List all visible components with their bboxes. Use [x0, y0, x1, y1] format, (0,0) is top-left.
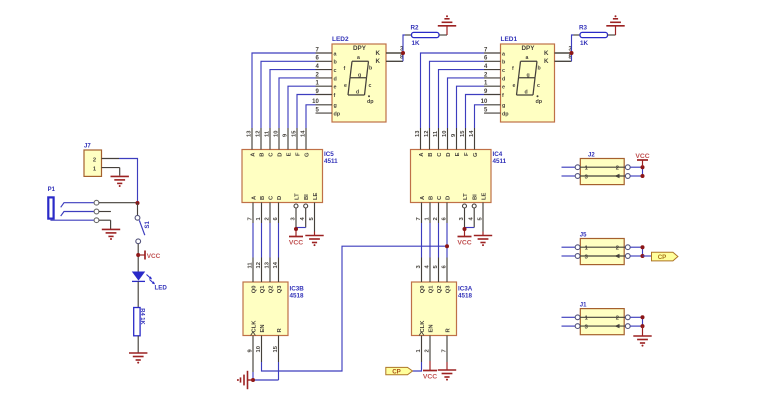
svg-text:dp: dp: [367, 99, 374, 105]
svg-text:c: c: [537, 83, 540, 89]
J1 pin row 2: [562, 324, 643, 331]
svg-text:Q3: Q3: [277, 285, 283, 294]
IC3B top pin 14 stub: [273, 258, 279, 283]
IC4 pin 3 (LT) stub: [459, 204, 467, 228]
display LED1 pin 4 stub: [484, 64, 501, 70]
svg-text:BI: BI: [304, 194, 310, 200]
svg-text:R3: R3: [579, 25, 588, 32]
IC3A top pin 4 stub: [425, 258, 431, 283]
wire display LED2 pin g to decoder: [306, 105, 316, 128]
connector J2: [580, 152, 624, 184]
svg-text:LE: LE: [313, 192, 319, 200]
svg-text:K: K: [544, 58, 549, 65]
svg-text:VCC: VCC: [423, 374, 437, 381]
svg-text:14: 14: [301, 130, 307, 137]
wire P1 ring stub: [99, 211, 111, 213]
ground (P1 sleeve): [102, 229, 120, 240]
wire IC4 input to IC3A Q1: [429, 223, 431, 258]
svg-text:EN: EN: [260, 324, 266, 332]
wire R4 to ground: [137, 336, 139, 353]
display LED2 pin 2 stub: [315, 72, 332, 78]
svg-text:15: 15: [273, 345, 279, 352]
wire IC4 LE to ground: [482, 232, 484, 236]
ground (J7 pin1): [111, 176, 129, 187]
7-segment display LED1: [501, 36, 555, 122]
display LED2 pin 9 stub: [315, 89, 332, 95]
svg-text:a: a: [357, 55, 360, 61]
svg-text:d: d: [334, 76, 337, 82]
svg-text:11: 11: [265, 130, 271, 137]
display LED1 pin 6 stub: [484, 56, 501, 62]
wire IC3A R to ground: [446, 356, 448, 370]
wire display LED1 pin c to decoder: [439, 70, 485, 128]
svg-text:10: 10: [274, 131, 280, 137]
IC4 top pin 15 stub: [460, 128, 466, 150]
display LED1 pin 9 stub: [484, 89, 501, 95]
svg-text:CP: CP: [658, 254, 667, 261]
power VCC (IC4 LT/BI): [457, 237, 471, 247]
junction node A: [136, 201, 140, 205]
J2 pin row 2: [562, 174, 643, 181]
audio jack P1: [48, 187, 95, 220]
display LED2 pin 5 stub: [315, 108, 332, 114]
svg-text:EN: EN: [429, 324, 435, 332]
wire P1 tip to node A: [99, 202, 138, 204]
power VCC tap: [136, 251, 160, 260]
IC3B top pin 12 stub: [256, 258, 262, 283]
svg-text:12: 12: [256, 131, 262, 137]
wire LED to R4: [137, 281, 139, 307]
svg-text:g: g: [358, 73, 361, 79]
svg-text:14: 14: [273, 261, 279, 268]
IC5 bottom pin 7 stub: [248, 203, 254, 224]
IC3A bottom pin 1 stub: [416, 336, 422, 356]
svg-text:e: e: [344, 83, 347, 89]
svg-text:15: 15: [460, 130, 466, 137]
IC5 top pin 13 stub: [247, 128, 253, 150]
IC4 bottom pin 6 stub: [442, 203, 448, 224]
wire display LED2 pin a to decoder: [252, 53, 316, 128]
svg-text:2: 2: [616, 166, 619, 172]
LED D1: [132, 272, 168, 292]
display LED2 pin 8 (K) stub: [386, 55, 404, 62]
svg-text:P1: P1: [48, 187, 56, 193]
svg-text:E: E: [287, 152, 293, 156]
svg-text:D: D: [277, 196, 283, 200]
connector J5: [580, 232, 624, 264]
wire J1 to ground: [642, 326, 644, 336]
ground (R2): [438, 15, 456, 26]
svg-text:LED1: LED1: [501, 36, 518, 43]
connector J7: [84, 144, 102, 177]
svg-text:K: K: [544, 50, 549, 57]
IC5 pin 3 (LT) stub: [291, 204, 299, 228]
svg-text:J7: J7: [84, 144, 91, 150]
P1 tip pin circle: [94, 200, 99, 205]
7-segment display LED2: [332, 36, 386, 122]
IC3A top pin 3 stub: [416, 258, 422, 283]
wire J2 to VCC: [642, 160, 644, 167]
power VCC (J2): [635, 153, 649, 160]
J2 right rail junctions: [641, 165, 645, 178]
P1 sleeve pin circle: [94, 218, 99, 223]
svg-text:e: e: [513, 83, 516, 89]
svg-text:G: G: [473, 152, 479, 157]
display LED2 pin 7 stub: [315, 47, 332, 53]
svg-text:dp: dp: [502, 112, 509, 118]
display LED2 pin 1 stub: [315, 81, 332, 87]
svg-text:CP: CP: [392, 369, 401, 376]
connector J1: [580, 303, 624, 335]
svg-text:IC3A: IC3A: [458, 286, 473, 293]
svg-text:11: 11: [248, 262, 254, 269]
net flag CP (bottom): [386, 367, 413, 375]
svg-text:J1: J1: [580, 303, 587, 309]
wire IC3A CLK to CP flag: [413, 356, 422, 372]
IC4 pin 4 (BI) stub: [469, 204, 477, 228]
svg-text:12: 12: [424, 131, 430, 137]
IC4 top pin 10 stub: [442, 128, 448, 150]
svg-text:f: f: [344, 66, 346, 72]
svg-text:g: g: [334, 103, 337, 109]
wire S1 to LED: [137, 244, 139, 272]
svg-text:CLK: CLK: [420, 320, 426, 333]
svg-text:c: c: [369, 83, 372, 89]
IC5 top pin 12 stub: [256, 128, 262, 150]
wire IC4 input to IC3A Q2: [438, 223, 440, 258]
IC4 pin 5 (LE) stub: [478, 203, 484, 232]
display LED2 pin 4 stub: [315, 64, 332, 70]
wire display LED2 pin f to decoder: [297, 95, 316, 129]
IC3A bottom pin 7 stub: [442, 336, 448, 356]
ground (IC3B CLK,R): [237, 371, 248, 389]
svg-text:11: 11: [433, 130, 439, 137]
svg-text:7: 7: [416, 217, 422, 220]
svg-text:2: 2: [433, 217, 439, 220]
net flag CP (J5): [652, 252, 678, 261]
svg-text:LT: LT: [295, 193, 301, 200]
svg-text:7: 7: [442, 349, 448, 352]
IC4 top pin 14 stub: [469, 128, 475, 150]
wire display LED2 pin e to decoder: [288, 86, 316, 128]
ground (IC4 LE): [474, 236, 492, 247]
wire LED2 K pins to resistor: [386, 35, 405, 61]
wire R2 to ground: [446, 26, 448, 35]
svg-text:c: c: [334, 68, 337, 74]
svg-text:c: c: [502, 68, 505, 74]
decoder IC4 4511: [411, 150, 507, 203]
ground (R4): [129, 353, 147, 364]
svg-text:VCC: VCC: [289, 240, 303, 247]
svg-text:E: E: [455, 152, 461, 156]
wire J7 pin1 to ground: [102, 168, 120, 176]
svg-text:d: d: [356, 90, 359, 96]
power VCC (IC3A EN): [423, 371, 437, 381]
svg-text:2: 2: [425, 349, 431, 352]
IC5 pin 4 (BI) stub: [300, 204, 308, 228]
wire display LED2 pin b to decoder: [261, 61, 316, 128]
wire IC5 LT/BI to VCC: [294, 227, 306, 236]
J1 right rail junctions: [641, 315, 645, 328]
svg-text:B: B: [428, 153, 434, 157]
svg-text:1K: 1K: [580, 40, 589, 47]
display LED2 pin 3 (K) stub: [386, 46, 404, 53]
wire IC4 input to IC3A Q3: [446, 223, 448, 258]
IC4 top pin 11 stub: [433, 128, 439, 150]
resistor R2: [405, 25, 447, 48]
display LED2 pin 6 stub: [315, 56, 332, 62]
svg-text:J5: J5: [580, 232, 587, 238]
svg-text:1K: 1K: [412, 40, 421, 47]
svg-text:K: K: [376, 58, 381, 65]
svg-text:DPY: DPY: [353, 45, 367, 52]
wire IC5 input to IC3B Q2: [269, 223, 271, 258]
svg-text:d: d: [525, 90, 528, 96]
svg-text:2: 2: [265, 217, 271, 220]
svg-text:K: K: [376, 50, 381, 57]
svg-text:13: 13: [247, 130, 253, 137]
IC3A top pin 6 stub: [442, 258, 448, 283]
svg-text:BI: BI: [473, 194, 479, 200]
svg-text:IC3B: IC3B: [290, 286, 305, 293]
counter IC3B 4518: [243, 282, 304, 336]
svg-text:d: d: [502, 76, 505, 82]
svg-text:13: 13: [415, 130, 421, 137]
IC5 top pin 9 stub: [283, 128, 289, 150]
wire display LED1 pin d to decoder: [448, 78, 485, 128]
wire IC4 LT/BI to VCC: [463, 227, 475, 236]
junction node B (IC3B clk/gnd): [248, 378, 256, 382]
IC3B top pin 13 stub: [265, 258, 271, 283]
wire IC5 input to IC3B Q1: [261, 223, 263, 258]
display LED1 pin 5 stub: [484, 108, 501, 114]
IC5 bottom pin 1 stub: [256, 203, 262, 224]
svg-text:J2: J2: [588, 152, 595, 158]
svg-text:DPY: DPY: [522, 45, 536, 52]
ground (IC5 LE): [305, 236, 323, 247]
switch S1: [135, 203, 151, 244]
IC4 top pin 13 stub: [415, 128, 421, 150]
svg-text:f: f: [512, 66, 514, 72]
svg-text:b: b: [538, 66, 541, 72]
ground (J1): [633, 336, 651, 347]
svg-text:f: f: [502, 93, 504, 99]
svg-text:4518: 4518: [458, 293, 473, 300]
J5 pin row 1: [562, 245, 643, 252]
J5 right rail junctions: [641, 245, 645, 258]
svg-text:Q2: Q2: [437, 286, 443, 294]
svg-text:4511: 4511: [493, 158, 507, 165]
IC4 bottom pin 7 stub: [416, 203, 422, 224]
wire carry IC3A Q3 to IC3B EN: [262, 244, 450, 371]
wire display LED1 pin f to decoder: [466, 95, 485, 129]
IC3B top pin 11 stub: [248, 258, 254, 283]
svg-text:2: 2: [93, 157, 96, 163]
svg-text:f: f: [334, 93, 336, 99]
IC5 top pin 15 stub: [292, 128, 298, 150]
IC4 bottom pin 1 stub: [425, 203, 431, 224]
svg-text:2: 2: [616, 246, 619, 252]
svg-text:13: 13: [265, 261, 271, 268]
wire IC5 input to IC3B Q3: [278, 223, 280, 258]
ground (IC3A R): [438, 370, 456, 381]
counter IC3A 4518: [412, 282, 473, 336]
svg-text:b: b: [369, 66, 372, 72]
IC3B bottom pin 10 stub: [256, 336, 262, 356]
svg-text:1K: 1K: [139, 317, 145, 325]
J5 pin row 2: [562, 254, 643, 261]
wire J7 pin2 to node A: [102, 159, 138, 204]
svg-text:12: 12: [256, 262, 262, 268]
svg-text:D: D: [278, 153, 284, 157]
wire display LED1 pin b to decoder: [430, 61, 485, 128]
display LED1 pin 3 (K) stub: [555, 46, 573, 53]
svg-text:LE: LE: [482, 192, 488, 200]
power VCC (IC5 LT/BI): [289, 237, 303, 247]
display LED1 pin 8 (K) stub: [555, 55, 573, 62]
IC4 top pin 12 stub: [424, 128, 430, 150]
ground (R3): [606, 15, 624, 26]
resistor R4: [134, 308, 146, 336]
svg-text:D: D: [446, 153, 452, 157]
svg-text:4511: 4511: [324, 158, 338, 165]
svg-text:Q1: Q1: [260, 285, 266, 294]
svg-text:a: a: [526, 55, 529, 61]
svg-text:14: 14: [469, 130, 475, 137]
IC3B bottom pin 15 stub: [273, 336, 279, 356]
svg-text:LT: LT: [463, 193, 469, 200]
svg-text:R4: R4: [139, 308, 145, 316]
IC5 pin 5 (LE) stub: [309, 203, 315, 232]
wire J5 to CP flag: [643, 255, 652, 257]
svg-text:CLK: CLK: [252, 320, 258, 333]
resistor R3: [574, 25, 616, 48]
IC5 bottom pin 6 stub: [273, 203, 279, 224]
svg-text:Q0: Q0: [252, 286, 258, 294]
svg-text:2: 2: [616, 316, 619, 322]
IC3B bottom pin 9 stub: [248, 336, 254, 356]
IC4 top pin 9 stub: [451, 128, 457, 150]
svg-text:VCC: VCC: [147, 253, 161, 260]
svg-text:g: g: [502, 103, 505, 109]
svg-text:B: B: [429, 196, 435, 200]
svg-text:e: e: [502, 85, 505, 91]
display LED1 pin 7 stub: [484, 47, 501, 53]
wire display LED1 pin e to decoder: [457, 86, 485, 128]
svg-text:10: 10: [442, 131, 448, 137]
J1 pin row 1: [562, 315, 643, 322]
IC5 top pin 10 stub: [274, 128, 280, 150]
svg-text:F: F: [296, 152, 302, 156]
wire display LED2 pin c to decoder: [270, 70, 316, 128]
svg-text:D: D: [446, 196, 452, 200]
wire display LED1 pin g to decoder: [475, 105, 485, 128]
display LED1 pin 2 stub: [484, 72, 501, 78]
wire display LED1 pin a to decoder: [421, 53, 485, 128]
svg-text:R2: R2: [411, 25, 420, 32]
svg-text:VCC: VCC: [457, 240, 471, 247]
wire R3 to ground: [615, 26, 617, 35]
svg-text:VCC: VCC: [635, 153, 649, 160]
svg-text:Q2: Q2: [269, 286, 275, 294]
svg-text:Q0: Q0: [420, 286, 426, 294]
wire IC3B CLK to ground node: [252, 356, 254, 381]
svg-text:LED2: LED2: [332, 36, 349, 43]
display LED1 pin 10 stub: [481, 99, 501, 105]
J2 pin row 1: [562, 165, 643, 172]
svg-text:B: B: [260, 196, 266, 200]
svg-text:LED: LED: [155, 285, 168, 292]
svg-text:10: 10: [256, 346, 262, 352]
svg-text:dp: dp: [334, 112, 341, 118]
svg-text:B: B: [260, 153, 266, 157]
P1 ring pin circle: [94, 209, 99, 214]
wire IC3B R to ground node: [253, 356, 279, 381]
wire P1 sleeve to ground: [99, 220, 111, 229]
wire display LED2 pin d to decoder: [279, 78, 316, 128]
svg-text:7: 7: [248, 217, 254, 220]
display LED1 pin 1 stub: [484, 81, 501, 87]
svg-text:F: F: [464, 152, 470, 156]
wire IC5 LE to ground: [314, 232, 316, 236]
svg-text:e: e: [334, 85, 337, 91]
IC3A top pin 5 stub: [433, 258, 439, 283]
wire IC5 input to IC3B Q0: [252, 223, 254, 258]
svg-text:S1: S1: [145, 220, 151, 228]
svg-text:dp: dp: [536, 99, 543, 105]
IC3A bottom pin 2 stub: [425, 336, 431, 356]
IC5 top pin 11 stub: [265, 128, 271, 150]
svg-text:g: g: [527, 73, 530, 79]
svg-text:15: 15: [292, 130, 298, 137]
IC4 bottom pin 2 stub: [433, 203, 439, 224]
svg-text:G: G: [305, 152, 311, 157]
IC5 bottom pin 2 stub: [265, 203, 271, 224]
svg-text:Q1: Q1: [429, 285, 435, 294]
display LED2 pin 10 stub: [312, 99, 332, 105]
svg-text:4518: 4518: [290, 293, 305, 300]
IC5 top pin 14 stub: [301, 128, 307, 150]
wire LED1 K pins to resistor: [555, 35, 574, 61]
wire IC4 input to IC3A Q0: [421, 223, 423, 258]
wire IC3A EN to VCC: [429, 356, 431, 371]
decoder IC5 4511: [242, 150, 338, 203]
svg-text:Q3: Q3: [446, 285, 452, 294]
